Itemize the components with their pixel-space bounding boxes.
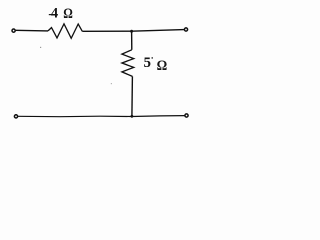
wire from R2 down to bottom node: [131, 76, 134, 116]
value label 4 ohm: [49, 14, 52, 16]
resistor R2 5 ohm (vertical zigzag): [122, 50, 134, 77]
wire bottom rail: [18, 116, 185, 117]
speck artifact near 5 label: [152, 57, 153, 59]
wire top-left segment: [16, 29, 48, 32]
terminal node top-right: [184, 28, 187, 31]
wire from top node down to R2: [131, 31, 133, 50]
junction dot bottom node: [131, 115, 134, 118]
terminal node bottom-left: [14, 115, 17, 118]
terminal node top-left: [12, 29, 15, 32]
resistor R1 4 ohm (horizontal zigzag): [48, 24, 82, 39]
junction dot top node: [130, 30, 133, 33]
svg-text:Ω: Ω: [157, 58, 168, 74]
svg-text:4: 4: [51, 6, 58, 22]
speck artifact mid page: [111, 83, 112, 84]
svg-text:5: 5: [144, 55, 152, 71]
svg-text:Ω: Ω: [63, 6, 73, 22]
wire top-right segment: [82, 30, 184, 32]
speck artifact below R1: [40, 47, 41, 48]
terminal node bottom-right: [185, 114, 188, 117]
